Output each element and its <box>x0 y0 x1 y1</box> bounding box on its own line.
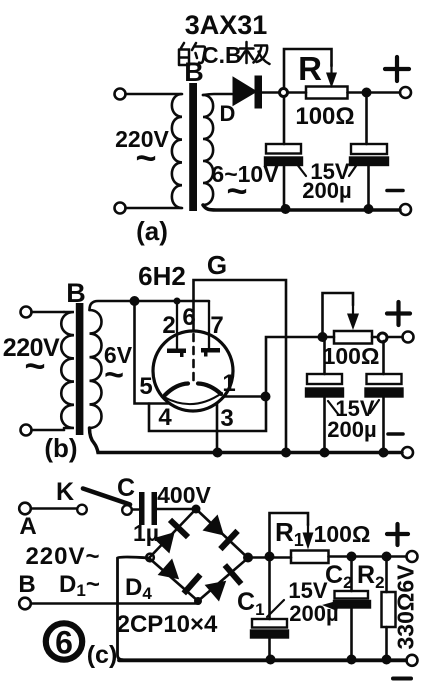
label 100ohm c <box>314 521 371 547</box>
node ring <box>280 89 288 97</box>
terminal b1 <box>21 307 32 318</box>
svg-text:B: B <box>184 57 204 87</box>
switch K blade <box>83 489 130 505</box>
terminal b2 <box>21 425 32 436</box>
svg-text:R2: R2 <box>357 561 385 592</box>
wire heater box <box>149 397 266 431</box>
label 330ohm6V vertical <box>393 564 419 650</box>
node dot <box>261 392 271 402</box>
label 400V <box>157 482 211 508</box>
svg-text:6: 6 <box>182 304 195 331</box>
wire B to bridge <box>31 601 198 604</box>
terminal plus a <box>400 87 411 98</box>
wire <box>32 311 65 314</box>
terminal B c <box>19 598 31 610</box>
svg-text:R1: R1 <box>275 517 304 550</box>
terminal A <box>19 503 31 515</box>
wire bridge minus path <box>118 557 150 660</box>
resistor R1 body <box>291 551 329 564</box>
svg-text:B: B <box>66 278 86 308</box>
node dot bridge bottom <box>194 597 202 605</box>
svg-text:200µ: 200µ <box>302 178 351 203</box>
wire pin1 <box>224 395 266 398</box>
capacitor C2 <box>334 591 370 608</box>
wire <box>372 336 378 339</box>
svg-text:220V~: 220V~ <box>25 543 100 570</box>
transformer Ta primary winding <box>172 94 182 208</box>
rheostat Rb wiper arrow <box>347 305 359 330</box>
terminal minus b <box>402 447 413 458</box>
svg-text:15V: 15V <box>288 578 327 603</box>
label D <box>220 101 236 126</box>
terminal minus a <box>400 204 411 215</box>
node dot <box>347 655 357 665</box>
label 15V 200u b <box>327 396 376 442</box>
diode D <box>234 77 262 108</box>
wire <box>31 507 77 510</box>
wire <box>126 93 182 96</box>
node dot <box>362 88 372 98</box>
node dot g rail <box>281 448 291 458</box>
label 6~10V <box>211 161 279 211</box>
label 1u <box>133 520 159 546</box>
leader arrow c2 <box>322 600 340 611</box>
label minus b <box>388 432 403 436</box>
label plus <box>385 57 409 81</box>
leader marks <box>296 163 358 176</box>
svg-text:100Ω: 100Ω <box>295 103 354 130</box>
wire bridge plus <box>248 556 291 559</box>
wire <box>323 397 326 453</box>
svg-text:100Ω: 100Ω <box>314 521 371 547</box>
label 100ohm b <box>323 343 380 369</box>
terminal plus c <box>407 551 418 562</box>
svg-text:1µ: 1µ <box>133 520 159 546</box>
diode D4 bottom-right <box>205 563 244 601</box>
label D4 <box>125 574 152 603</box>
resistor R2 body <box>382 592 396 627</box>
transformer Ta secondary winding <box>203 95 213 205</box>
label (b) <box>44 433 77 463</box>
rheostat R wiper arrow <box>326 64 337 88</box>
wire <box>157 508 196 511</box>
wire pin7 drop <box>208 302 210 348</box>
wire <box>329 555 407 558</box>
node dot <box>266 655 276 665</box>
wire <box>203 94 232 95</box>
svg-text:D: D <box>220 101 236 126</box>
svg-text:6H2: 6H2 <box>138 261 186 291</box>
wire pin3 <box>216 404 219 453</box>
svg-text:(a): (a) <box>136 216 168 246</box>
capacitor Ca1 <box>265 144 302 165</box>
wire R2 bottom <box>385 627 388 660</box>
svg-text:G: G <box>207 250 227 280</box>
label (a) <box>136 216 168 246</box>
svg-text:K: K <box>56 478 74 506</box>
svg-text:(c): (c) <box>87 641 118 669</box>
wire <box>367 165 370 209</box>
label B c <box>18 571 35 598</box>
capacitor Ca2 <box>350 144 388 165</box>
rheostat R bypass wire <box>284 49 332 88</box>
svg-text:B: B <box>18 571 35 598</box>
label C1 <box>237 588 265 619</box>
wire anode up <box>266 337 334 397</box>
tube grid dashed <box>192 334 195 386</box>
bottom rail wire b <box>90 428 403 453</box>
bottom rail wire <box>203 205 400 210</box>
wire <box>288 91 306 94</box>
wire R2 top <box>385 557 388 593</box>
node dot bridge right <box>243 553 253 563</box>
diode D1 top-left <box>154 518 191 554</box>
label C <box>117 474 135 502</box>
wire pin5 <box>135 301 169 404</box>
svg-text:~: ~ <box>104 356 124 394</box>
label 100ohm <box>295 103 354 130</box>
label R2 <box>357 561 385 592</box>
wire <box>132 508 139 511</box>
svg-text:6: 6 <box>55 625 73 661</box>
svg-text:C1: C1 <box>237 588 265 619</box>
label 220V <box>115 126 169 178</box>
svg-text:4: 4 <box>158 404 172 431</box>
label minus c <box>393 677 411 681</box>
label 200u c <box>289 601 338 626</box>
wire <box>126 207 182 210</box>
wire <box>350 608 353 660</box>
diode D2 top-right <box>203 515 240 552</box>
rheostat R1 wiper arrow <box>303 524 314 550</box>
svg-text:(b): (b) <box>44 433 77 463</box>
wire secondary top <box>90 301 210 310</box>
resistor R body <box>306 87 348 99</box>
node dot <box>379 448 389 458</box>
node dot <box>281 204 291 214</box>
label pin2 <box>162 312 175 339</box>
tube heater crescent <box>165 384 221 396</box>
svg-text:~: ~ <box>135 137 156 178</box>
svg-text:C: C <box>117 474 135 502</box>
terminal a1 <box>115 89 126 100</box>
badge circled 6 <box>46 623 82 659</box>
svg-text:~: ~ <box>226 170 247 211</box>
capacitor C1 <box>251 619 288 638</box>
wire <box>261 91 280 94</box>
switch K contact2 <box>122 505 132 515</box>
label pin4 <box>158 404 172 431</box>
svg-text:100Ω: 100Ω <box>323 343 380 369</box>
label 220V~ c <box>25 543 100 570</box>
label D1~ <box>59 571 100 600</box>
diode D3 bottom-left <box>158 559 203 596</box>
label B <box>184 57 204 87</box>
node dot <box>130 296 140 306</box>
node dot <box>318 332 328 342</box>
rheostat R1 bypass wire <box>270 513 309 557</box>
node dot <box>382 655 392 665</box>
label pin5 <box>139 373 152 400</box>
svg-text:7: 7 <box>210 312 223 339</box>
node dot bridge left <box>146 554 154 562</box>
label 15V c <box>288 578 327 603</box>
transformer Tb core B <box>76 303 84 435</box>
rheostat Rb bypass wire <box>323 293 354 337</box>
leader mark c1 <box>267 600 284 617</box>
capacitor Ca2 wire <box>365 93 368 145</box>
capacitor Cb2 wire <box>382 341 385 374</box>
terminal minus c <box>407 655 418 666</box>
label G <box>207 250 227 280</box>
bridge diamond wires <box>149 509 248 601</box>
label plus b <box>387 302 410 325</box>
svg-text:200µ: 200µ <box>327 417 376 442</box>
capacitor Cb2 <box>366 374 403 397</box>
svg-text:D4: D4 <box>125 574 152 603</box>
tube plate bar pin2 <box>167 349 186 358</box>
wire <box>348 91 401 94</box>
node dot <box>320 448 330 458</box>
capacitor Cb1 wire <box>323 337 326 374</box>
label B b <box>66 278 86 308</box>
capacitor C2 wire <box>350 557 353 592</box>
label 的C.B极 <box>179 42 270 68</box>
switch K contact1 <box>77 505 87 515</box>
leader marks b <box>328 400 379 414</box>
label 220V b <box>3 334 60 386</box>
wire <box>382 397 385 453</box>
label plus c <box>387 524 408 545</box>
svg-text:3AX31: 3AX31 <box>185 10 268 40</box>
label 6V <box>104 342 133 394</box>
svg-text:C.B: C.B <box>202 42 242 68</box>
capacitor Ca1 wire <box>283 97 286 145</box>
label minus <box>387 189 403 193</box>
wire <box>387 336 403 339</box>
node dot r1 left <box>265 552 275 562</box>
terminal plus b <box>403 332 414 343</box>
svg-text:C2: C2 <box>325 561 353 592</box>
wire <box>268 638 271 660</box>
svg-text:1: 1 <box>222 370 235 397</box>
node dot <box>364 204 374 214</box>
label pin6 <box>182 304 195 331</box>
label 6H2 <box>138 261 186 291</box>
svg-text:2: 2 <box>162 312 175 339</box>
node ring b <box>378 333 387 342</box>
wire grid G <box>194 280 287 449</box>
svg-text:400V: 400V <box>157 482 211 508</box>
transformer Tb primary winding <box>61 312 74 428</box>
tube U1 envelope <box>153 331 233 411</box>
capacitor C1 wire <box>268 557 271 620</box>
node dot bridge top <box>192 505 201 514</box>
label C2 <box>325 561 353 592</box>
label 2CP10x4 <box>117 611 218 638</box>
label R <box>298 50 322 87</box>
transformer Ta core B <box>189 83 197 211</box>
node dot small <box>174 298 181 305</box>
resistor Rb body <box>334 331 372 344</box>
label (c) <box>87 641 118 669</box>
label 15V 200u <box>302 159 351 203</box>
tube plate bar pin7 <box>201 348 220 357</box>
capacitor Cb1 <box>306 374 343 397</box>
wire <box>32 429 65 432</box>
label pin3 <box>220 405 233 432</box>
terminal a2 <box>115 203 126 214</box>
wire <box>283 165 286 209</box>
svg-text:A: A <box>19 513 36 540</box>
svg-text:3: 3 <box>220 405 233 432</box>
label pin1 <box>222 370 235 397</box>
capacitor C plates <box>139 492 157 525</box>
svg-text:5: 5 <box>139 373 152 400</box>
label pin7 <box>210 312 223 339</box>
svg-text:D1~: D1~ <box>59 571 100 600</box>
node dot <box>213 448 223 458</box>
svg-text:2CP10×4: 2CP10×4 <box>117 611 218 638</box>
label R1 <box>275 517 304 550</box>
svg-text:R: R <box>298 50 322 87</box>
wire pin2 drop <box>176 301 178 348</box>
svg-text:330Ω6V: 330Ω6V <box>393 564 419 650</box>
label A <box>19 513 36 540</box>
transformer Tb secondary winding <box>90 310 102 428</box>
label K <box>56 478 74 506</box>
label 3AX31 <box>185 10 268 40</box>
svg-text:~: ~ <box>24 345 45 386</box>
node dot r2 <box>382 552 392 562</box>
node dot c2 <box>347 552 357 562</box>
